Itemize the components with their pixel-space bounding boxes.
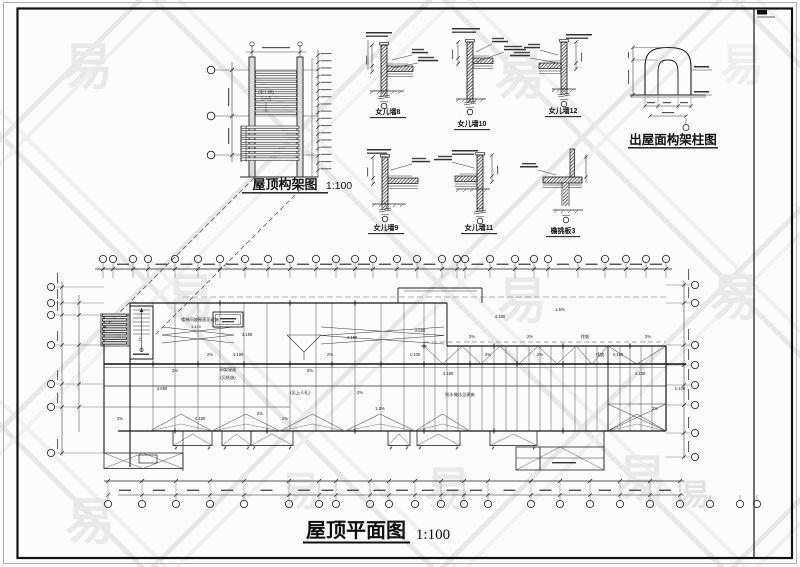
parapet detail 女儿墙10: roof slab	[473, 58, 493, 64]
eave slab detail 檐挑板3: leader note	[538, 170, 556, 175]
svg-text:4.180: 4.180	[195, 416, 206, 421]
watermark glyphs	[63, 39, 764, 550]
parapet detail 女儿墙11: detail bubble	[477, 218, 483, 224]
plan: right axis circles	[691, 281, 698, 288]
parapet detail 女儿墙10: break marks	[464, 101, 476, 103]
roof stub column detail: column bubble	[685, 118, 687, 124]
plan: bottom axis circles	[104, 500, 111, 507]
svg-text:易: 易	[710, 270, 760, 326]
plan: right block bottom slope	[608, 404, 666, 431]
parapet detail 女儿墙8: dimension line	[371, 45, 373, 72]
svg-text:找坡: 找坡	[596, 351, 605, 358]
parapet detail 女儿墙12: roof slab	[539, 63, 561, 69]
parapet detail 女儿墙9: leader notes	[391, 164, 412, 170]
plan: bottom protrusion canopies	[173, 431, 212, 446]
parapet detail 女儿墙8: coping cap	[380, 43, 389, 46]
svg-text:易: 易	[495, 49, 545, 105]
roof framework detail: bottom chord line	[240, 176, 318, 178]
roof framework detail: axis lines	[215, 69, 318, 71]
plan: bowtie drainage 1	[162, 327, 234, 335]
parapet detail 女儿墙9: detail bubble	[382, 216, 388, 222]
roof framework detail: left dimension line	[231, 62, 233, 162]
roof stub column detail: right leaders	[691, 69, 712, 71]
svg-text:出屋面构架柱图: 出屋面构架柱图	[629, 132, 717, 147]
parapet detail 女儿墙12: wall below break	[560, 89, 562, 95]
eave slab detail 檐挑板3: detail bubble	[563, 217, 569, 223]
svg-text:4.180: 4.180	[233, 352, 244, 357]
dashed leader line 1	[100, 178, 254, 332]
plan: drain funnel	[287, 334, 321, 336]
roof stub column detail: outer arch	[645, 48, 691, 96]
plan: bottom edge	[118, 430, 666, 432]
roof framework detail: beam rungs lower group	[241, 126, 299, 129]
parapet detail 女儿墙9: coping cap	[381, 155, 390, 158]
parapet detail 女儿墙11: break marks	[474, 210, 486, 212]
svg-text:易: 易	[617, 451, 667, 507]
parapet detail 女儿墙10: leader notes	[476, 44, 492, 52]
svg-text:1:100: 1:100	[410, 352, 421, 357]
plan: roof outline top edge right	[447, 345, 666, 347]
svg-text:3.580: 3.580	[157, 386, 168, 391]
svg-text:2%: 2%	[485, 352, 491, 357]
svg-text:2%: 2%	[117, 416, 123, 421]
roof framework detail: column B	[297, 57, 303, 177]
svg-text:楼梯间坡屋面见建施: 楼梯间坡屋面见建施	[181, 316, 220, 323]
parapet detail 女儿墙8: ground line	[370, 90, 404, 92]
parapet detail 女儿墙9: roof slab	[388, 178, 418, 184]
plan: bottom-left protrusion	[104, 453, 183, 469]
svg-text:4.180: 4.180	[613, 352, 624, 357]
roof framework detail: right dimension column	[311, 58, 313, 177]
svg-text:4.180: 4.180	[242, 332, 253, 337]
parapet detail 女儿墙12: detail bubble	[561, 101, 567, 107]
svg-text:4.180: 4.180	[443, 371, 454, 376]
dashed leader line 2	[155, 178, 312, 335]
svg-text:2%: 2%	[172, 368, 178, 373]
plan: annex louver bottom line	[101, 345, 130, 347]
parapet detail 女儿墙10: coping cap	[466, 40, 475, 43]
svg-text:易: 易	[65, 494, 115, 550]
plan: right block edge	[607, 346, 609, 431]
svg-text:2%: 2%	[357, 390, 363, 395]
svg-text:2%: 2%	[652, 406, 658, 411]
plan: upper thin roof line	[183, 296, 666, 298]
parapet detail 女儿墙8: break marks	[378, 95, 390, 97]
svg-text:2%: 2%	[307, 368, 313, 373]
parapet detail 女儿墙9: wall section	[382, 157, 388, 204]
svg-text:2%: 2%	[207, 352, 213, 357]
roof framework detail: axis circle row	[207, 66, 215, 74]
eave slab detail 檐挑板3: dimension line	[585, 155, 587, 183]
svg-text:上: 上	[138, 335, 142, 341]
svg-text:上人孔: 上人孔	[260, 96, 272, 101]
title block column line	[753, 9, 755, 558]
svg-text:4.180: 4.180	[347, 335, 358, 340]
parapet detail 女儿墙8: detail bubble	[381, 103, 387, 109]
plan: roof outline top edge left	[130, 302, 447, 304]
plan: column grid lines	[103, 315, 105, 453]
svg-text:1.5%: 1.5%	[555, 307, 565, 312]
parapet detail 女儿墙8: wall below break	[380, 91, 382, 97]
svg-text:易: 易	[497, 273, 547, 329]
parapet detail 女儿墙12: leader notes	[540, 50, 558, 55]
parapet detail 女儿墙12: dimension line	[575, 42, 577, 69]
parapet detail 女儿墙11: roof slab	[455, 176, 477, 182]
plan: top axis grid circles	[99, 255, 106, 262]
plan: step connector	[446, 303, 448, 346]
svg-text:屋顶构架图: 屋顶构架图	[252, 177, 317, 192]
parapet detail 女儿墙10: ground line	[456, 98, 486, 100]
svg-text:(见上人孔): (见上人孔)	[290, 389, 310, 396]
svg-text:(见上层): (见上层)	[258, 89, 274, 96]
svg-text:易: 易	[63, 39, 113, 95]
parapet detail 女儿墙10: dimension line	[457, 42, 459, 64]
plan: mid ridge line	[104, 363, 686, 365]
svg-text:檐挑板3: 檐挑板3	[551, 226, 576, 235]
plan: top bump parapet	[398, 287, 482, 289]
eave slab detail 檐挑板3: slab	[543, 177, 582, 183]
svg-text:屋顶平面图: 屋顶平面图	[306, 519, 406, 542]
svg-text:2%: 2%	[645, 334, 651, 339]
parapet detail 女儿墙8: roof slab	[387, 66, 413, 72]
parapet detail 女儿墙12: break marks	[558, 93, 570, 95]
plan: bottom dimension line	[104, 480, 684, 482]
parapet detail 女儿墙11: leader notes	[452, 162, 474, 168]
plan: top dimension line	[95, 268, 672, 270]
plan: left axis circles	[47, 283, 54, 290]
plan: right dimension line	[683, 281, 685, 457]
svg-text:女儿墙8: 女儿墙8	[376, 107, 401, 116]
roof stub column detail: left dimension line	[632, 47, 634, 95]
svg-text:女儿墙12: 女儿墙12	[549, 106, 578, 115]
parapet detail 女儿墙9: ground line	[372, 203, 406, 205]
svg-text:(见结施): (见结施)	[220, 374, 236, 381]
plan: annex top line	[104, 314, 130, 316]
parapet detail 女儿墙9: wall below break	[381, 204, 383, 210]
plan: bottom second dimension line	[118, 494, 684, 496]
plan: right section drainage triangles	[424, 346, 443, 364]
parapet detail 女儿墙12: wall section	[561, 42, 567, 89]
roof stub column detail: base line	[630, 94, 706, 96]
plan: deep bottom protrusion	[539, 447, 541, 470]
svg-text:2%: 2%	[327, 352, 333, 357]
plan: left inner edge	[129, 303, 131, 467]
plan: interior cross marks	[150, 363, 155, 365]
parapet detail 女儿墙10: wall below break	[466, 99, 468, 103]
plan: left edge	[103, 315, 105, 453]
title block header mark	[757, 10, 767, 15]
roof framework detail: lower group left edge	[240, 126, 242, 162]
roof stub column detail: inner arch	[658, 60, 678, 95]
parapet detail 女儿墙11: wall section	[477, 155, 483, 209]
svg-text:易: 易	[720, 41, 764, 90]
parapet detail 女儿墙11: wall below break	[476, 209, 478, 212]
svg-text:2%: 2%	[527, 334, 533, 339]
svg-text:找坡: 找坡	[581, 333, 590, 340]
plan: rooftop machine room	[213, 312, 243, 327]
plan: bottom drainage triangles	[150, 414, 181, 431]
plan: louver block	[100, 313, 102, 346]
plan: left dimension lines	[61, 282, 63, 456]
roof framework detail: column A	[249, 57, 255, 177]
svg-text:3.580: 3.580	[415, 328, 426, 333]
svg-text:2%: 2%	[282, 416, 288, 421]
parapet detail 女儿墙11: ground line	[456, 188, 490, 190]
parapet detail 女儿墙10: wall section	[467, 42, 473, 99]
svg-text:4.180: 4.180	[635, 371, 646, 376]
svg-text:2%: 2%	[257, 411, 263, 416]
plan: bowtie drainage 2	[321, 327, 444, 336]
svg-text:1:100: 1:100	[675, 386, 686, 391]
svg-text:防水做法见建施: 防水做法见建施	[445, 391, 475, 398]
svg-text:1.5%: 1.5%	[375, 406, 385, 411]
roof stub column detail: bottom dimension	[645, 105, 691, 107]
parapet detail 女儿墙8: leader notes	[392, 55, 412, 60]
svg-text:1:100: 1:100	[416, 527, 450, 543]
eave slab detail 檐挑板3: upstand lip	[570, 149, 575, 177]
parapet detail 女儿墙10: detail bubble	[467, 109, 473, 115]
plan: left mid horizontal	[104, 406, 290, 408]
eave slab detail 檐挑板3: ground line	[553, 209, 583, 211]
parapet detail 女儿墙8: wall section	[381, 45, 387, 91]
svg-text:1:100: 1:100	[326, 180, 352, 192]
plan: right edge	[665, 346, 667, 431]
svg-text:2%: 2%	[537, 352, 543, 357]
parapet detail 女儿墙9: break marks	[379, 208, 391, 210]
parapet detail 女儿墙11: coping cap	[476, 153, 485, 156]
parapet detail 女儿墙12: ground line	[552, 88, 576, 90]
roof framework detail: beam rungs upper group	[256, 71, 297, 74]
svg-text:1:100: 1:100	[191, 324, 202, 329]
svg-text:女儿墙10: 女儿墙10	[458, 119, 487, 128]
parapet detail 女儿墙11: dimension line	[491, 155, 493, 182]
svg-text:4.180: 4.180	[495, 314, 506, 319]
plan: stairwell	[130, 306, 153, 359]
svg-text:女儿墙9: 女儿墙9	[374, 223, 399, 232]
svg-text:2%: 2%	[469, 334, 475, 339]
svg-text:易: 易	[280, 470, 320, 514]
parapet detail 女儿墙12: coping cap	[560, 40, 569, 43]
parapet detail 女儿墙9: dimension line	[372, 157, 374, 184]
svg-text:易: 易	[680, 479, 710, 512]
plan: lower horizontal line	[104, 385, 666, 387]
roof framework detail: column top stubs	[251, 45, 253, 57]
eave slab detail 檐挑板3: wall below	[561, 183, 563, 206]
svg-text:女儿墙11: 女儿墙11	[465, 223, 494, 232]
